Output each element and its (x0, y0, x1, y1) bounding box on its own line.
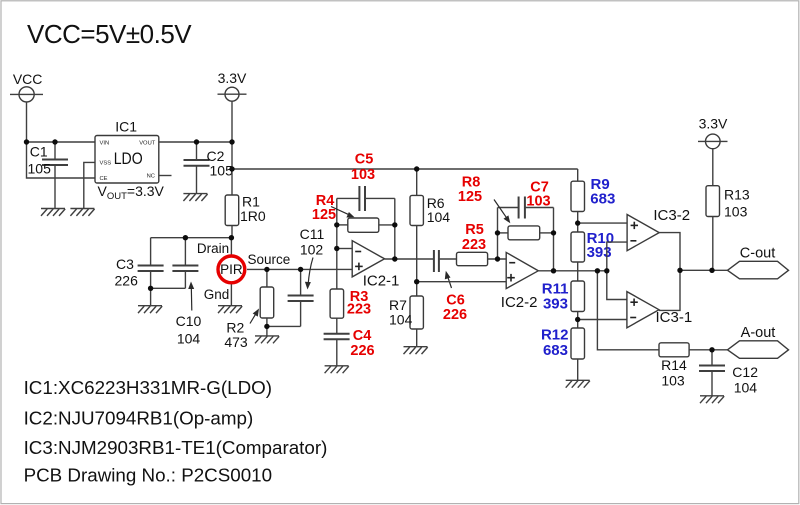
capacitor C11 (288, 226, 325, 327)
node R11/R12 (575, 317, 580, 322)
3.3V supply symbol (218, 70, 248, 101)
resistor R12 (541, 326, 585, 380)
ground (C4) (325, 366, 349, 373)
svg-text:PIR: PIR (220, 262, 243, 277)
wire IC2-1 minus input (337, 248, 352, 250)
svg-text:VOUT: VOUT (139, 141, 156, 147)
svg-text:104: 104 (734, 380, 758, 396)
node R13/C-out (709, 268, 714, 273)
svg-text:C11: C11 (300, 226, 325, 242)
ground (R7) (404, 347, 428, 354)
svg-text:IC2:NJU7094RB1(Op-amp): IC2:NJU7094RB1(Op-amp) (24, 407, 254, 428)
capacitor C5 (337, 151, 395, 211)
node comp outputs (677, 268, 682, 273)
node out/A-branch (595, 268, 600, 273)
op-amp U1 IC2-1 (352, 241, 399, 290)
wire 3.3V distribution rail (232, 168, 578, 170)
wire VSS to ground (84, 162, 95, 208)
ground (VSS) (70, 209, 94, 216)
svg-text:PCB Drawing No.: P2CS0010: PCB Drawing No.: P2CS0010 (24, 464, 272, 485)
node divider R6/R7 (414, 279, 419, 284)
svg-text:226: 226 (115, 272, 139, 288)
ground (R2) (255, 336, 279, 343)
svg-text:VCC=5V±0.5V: VCC=5V±0.5V (27, 19, 192, 49)
op-amp U3 IC3-2 (627, 207, 690, 251)
resistor R8 (458, 175, 554, 240)
bottom part list text (24, 377, 328, 485)
ground (C12) (700, 396, 724, 403)
wire IC3-2 plus input row (578, 222, 627, 224)
svg-text:103: 103 (661, 373, 685, 389)
capacitor C12 (699, 350, 758, 396)
wire 3.3V drop (231, 101, 233, 195)
node C1 tap (52, 139, 57, 144)
op IC1 LDO (95, 118, 165, 202)
svg-text:C10: C10 (176, 313, 202, 329)
svg-text:393: 393 (587, 244, 612, 261)
svg-text:104: 104 (427, 209, 451, 225)
arrow to R8 (494, 200, 510, 224)
capacitor C3 (115, 238, 164, 306)
node A-out connector (728, 325, 789, 359)
svg-text:223: 223 (347, 301, 371, 317)
wire R1 to drain (231, 226, 233, 238)
svg-text:C12: C12 (732, 364, 758, 380)
wire IC3-1 minus input row (578, 319, 627, 321)
resistor R1 (225, 194, 266, 226)
node IC2-2 out/R8 (551, 268, 556, 273)
node IC2-2 minus (495, 256, 500, 261)
node R2 bottom (264, 324, 269, 329)
capacitor C6 (434, 250, 467, 323)
svg-text:C4: C4 (353, 328, 372, 344)
wire IC3-2 minus input row (607, 242, 627, 299)
svg-text:105: 105 (210, 162, 234, 178)
resistor R3 (330, 289, 371, 334)
node VCC/C1 (24, 139, 29, 144)
svg-text:473: 473 (224, 334, 248, 350)
node R14/C12 (709, 347, 714, 352)
svg-text:223: 223 (462, 237, 486, 253)
node C3 bottom (148, 286, 153, 291)
node C-out connector (728, 246, 789, 279)
svg-text:C3: C3 (116, 256, 134, 272)
svg-text:102: 102 (300, 242, 324, 258)
resistor R13 (706, 149, 750, 271)
svg-text:103: 103 (526, 194, 550, 210)
wire VIN rail (27, 141, 96, 143)
ground (PIR) (218, 306, 242, 313)
node IC2-1 out (392, 256, 397, 261)
ground (R12) (566, 380, 590, 387)
svg-text:VCC: VCC (13, 71, 43, 87)
svg-text:CE: CE (100, 176, 108, 182)
node R8 left (495, 230, 500, 235)
node drain/R1 (229, 235, 234, 240)
svg-text:683: 683 (590, 190, 615, 207)
ground (C3) (138, 306, 162, 313)
svg-text:IC1: IC1 (115, 118, 137, 134)
node out/comp-inputs (604, 268, 609, 273)
node drain/C10 (183, 235, 188, 240)
wire drain row (151, 237, 232, 239)
wire NC stub (159, 175, 172, 177)
svg-text:105: 105 (28, 161, 52, 177)
wire feedback left vertical (336, 198, 338, 289)
arrow to C11 (305, 258, 313, 290)
svg-text:IC3-1: IC3-1 (656, 309, 693, 326)
resistor R10 (571, 230, 614, 281)
op-amp U4 IC3-1 (627, 292, 692, 328)
resistor R5 (457, 222, 507, 266)
3.3V supply symbol right (698, 116, 728, 149)
wire source row (247, 268, 352, 270)
wire feedback2 right vertical (553, 208, 555, 271)
resistor R6 (410, 169, 450, 296)
capacitor C10 (172, 238, 201, 347)
wire IC2-1 output row (385, 258, 434, 260)
wire R2/C11 bottom row (267, 325, 301, 327)
wire A-out drop (597, 271, 659, 350)
wire C-out row (680, 269, 728, 271)
node source/R2 (264, 267, 269, 272)
svg-text:NC: NC (147, 174, 155, 180)
resistor R9 (571, 169, 615, 232)
wire VCC drop (26, 102, 28, 142)
arrow to R4 (331, 207, 355, 218)
svg-text:103: 103 (724, 203, 748, 219)
ground (C2) (183, 194, 207, 201)
wire VOUT rail (159, 141, 232, 143)
PIR sensor (197, 238, 290, 306)
arrow to C10 (188, 282, 194, 311)
svg-text:393: 393 (543, 296, 568, 313)
node rail/R6 (414, 166, 419, 171)
node R4 right (392, 222, 397, 227)
wire feedback right vertical (394, 198, 396, 259)
svg-text:1R0: 1R0 (240, 208, 266, 224)
node C2 tap (194, 139, 199, 144)
wire IC2-2 output row (538, 270, 607, 272)
svg-text:104: 104 (389, 311, 413, 327)
svg-text:683: 683 (543, 342, 568, 359)
capacitor C1 (28, 142, 69, 209)
node R9/R10 (575, 220, 580, 225)
arrow to C6 (445, 271, 452, 288)
node rail/R1 (229, 166, 234, 171)
svg-text:103: 103 (351, 167, 375, 183)
svg-text:R5: R5 (465, 222, 484, 238)
svg-text:226: 226 (350, 343, 374, 359)
op-amp U2 IC2-2 (501, 252, 539, 311)
svg-text:VSS: VSS (100, 160, 112, 166)
svg-text:IC3:NJM2903RB1-TE1(Comparator): IC3:NJM2903RB1-TE1(Comparator) (24, 437, 328, 458)
svg-text:C5: C5 (355, 151, 374, 167)
node IC2-1 minus (334, 246, 339, 251)
svg-text:IC2-2: IC2-2 (501, 294, 538, 311)
node source/C11 (298, 267, 303, 272)
resistor R4 (312, 193, 395, 233)
svg-text:A-out: A-out (741, 325, 776, 341)
wire IC2-2 plus input row (417, 281, 507, 283)
svg-text:226: 226 (443, 307, 467, 323)
svg-text:IC2-1: IC2-1 (363, 273, 400, 290)
svg-text:Gnd: Gnd (204, 287, 230, 302)
svg-text:104: 104 (177, 330, 201, 346)
svg-text:VIN: VIN (100, 141, 110, 147)
svg-text:R14: R14 (661, 357, 687, 373)
arrow to R2 (250, 309, 259, 324)
wire CE tie loop (27, 142, 96, 178)
node R8 right (551, 230, 556, 235)
resistor R2 (224, 269, 273, 349)
wire feedback2 left vertical (497, 208, 499, 260)
svg-text:LDO: LDO (114, 150, 143, 168)
svg-text:IC1:XC6223H331MR-G(LDO): IC1:XC6223H331MR-G(LDO) (24, 377, 272, 398)
svg-text:C1: C1 (30, 144, 48, 160)
svg-text:Drain: Drain (197, 241, 229, 256)
capacitor C4 (324, 328, 375, 366)
svg-text:R13: R13 (724, 187, 750, 203)
node R4 left (334, 222, 339, 227)
resistor R7 (389, 296, 423, 347)
node 3.3V/VOUT (229, 139, 234, 144)
wire comparator outputs join (659, 233, 680, 311)
svg-text:IC3-2: IC3-2 (653, 207, 690, 224)
capacitor C2 (184, 142, 234, 194)
ground (C1) (41, 209, 65, 216)
svg-text:125: 125 (458, 189, 482, 205)
svg-text:Source: Source (248, 252, 291, 267)
VCC supply symbol (10, 71, 43, 102)
wire C3/C10 bottom row (151, 287, 186, 289)
svg-text:R12: R12 (541, 326, 569, 343)
resistor R14 (659, 343, 728, 389)
svg-text:C-out: C-out (740, 246, 775, 262)
svg-text:3.3V: 3.3V (699, 116, 728, 132)
svg-text:3.3V: 3.3V (218, 70, 247, 86)
svg-text:125: 125 (312, 207, 336, 223)
capacitor C7 (498, 180, 554, 219)
resistor R11 (542, 281, 585, 329)
